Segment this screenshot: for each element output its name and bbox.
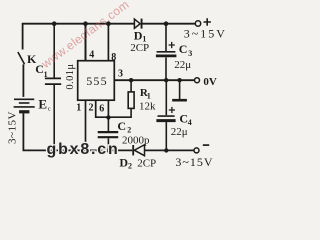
- svg-text:4: 4: [89, 50, 94, 61]
- svg-text:1: 1: [147, 92, 151, 101]
- svg-text:22μ: 22μ: [171, 126, 188, 138]
- svg-text:1: 1: [44, 70, 48, 79]
- svg-text:2: 2: [128, 162, 132, 171]
- svg-text:0.01μ: 0.01μ: [65, 64, 76, 90]
- svg-text:8: 8: [111, 52, 116, 63]
- svg-text:3~15V: 3~15V: [7, 111, 19, 144]
- svg-text:2CP: 2CP: [130, 42, 149, 54]
- svg-text:gbx8.cn: gbx8.cn: [47, 141, 120, 158]
- svg-text:C: C: [117, 119, 126, 133]
- svg-text:3: 3: [118, 69, 123, 80]
- svg-text:12k: 12k: [139, 101, 156, 113]
- svg-text:C: C: [179, 42, 188, 56]
- svg-text:4: 4: [188, 118, 192, 127]
- svg-text:555: 555: [86, 74, 108, 88]
- svg-text:c: c: [48, 106, 51, 113]
- svg-text:E: E: [38, 96, 47, 111]
- svg-text:3~15V: 3~15V: [184, 26, 227, 40]
- svg-text:3~15V: 3~15V: [175, 155, 213, 169]
- svg-text:6: 6: [99, 104, 104, 115]
- svg-text:C: C: [179, 112, 188, 126]
- svg-text:2000p: 2000p: [122, 134, 150, 146]
- svg-text:22μ: 22μ: [174, 59, 191, 71]
- svg-text:2CP: 2CP: [137, 157, 156, 169]
- svg-text:1: 1: [76, 103, 81, 114]
- svg-text:0V: 0V: [203, 76, 217, 88]
- svg-text:2: 2: [127, 126, 131, 135]
- svg-text:3: 3: [188, 49, 192, 58]
- svg-text:2: 2: [89, 103, 94, 114]
